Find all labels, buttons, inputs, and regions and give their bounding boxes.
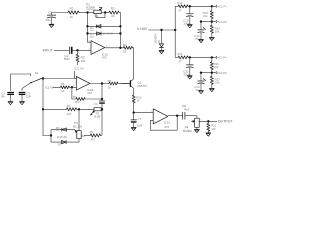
svg-text:R2: R2 bbox=[111, 7, 115, 11]
net label IC1 P6 bbox=[216, 20, 227, 24]
svg-text:5N: 5N bbox=[1, 95, 5, 99]
resistor R5 bbox=[53, 82, 70, 93]
svg-text:R5: R5 bbox=[61, 82, 65, 86]
ground under C13 bbox=[199, 91, 204, 94]
capacitor C6 bbox=[94, 101, 105, 135]
transistor Q1 bbox=[122, 79, 148, 88]
wire P3 to R9 bbox=[81, 134, 90, 137]
svg-text:R9: R9 bbox=[90, 130, 94, 134]
svg-text:10u: 10u bbox=[46, 18, 51, 22]
capacitor C7 bbox=[131, 113, 142, 128]
wire P4 to output bbox=[199, 119, 217, 123]
diode rail 1 wire bbox=[88, 25, 121, 27]
op-amp IC2A bbox=[151, 109, 171, 129]
wire C3 top feed bbox=[11, 74, 31, 91]
op-amp IC1A bbox=[73, 76, 93, 95]
ground under R14 bbox=[209, 37, 214, 40]
ground under C7 bbox=[131, 127, 136, 130]
svg-text:10k: 10k bbox=[203, 14, 208, 18]
svg-text:1k: 1k bbox=[123, 50, 127, 54]
resistor R10 vertical bbox=[132, 88, 142, 112]
svg-text:C7: C7 bbox=[137, 117, 141, 121]
svg-text:2N5457: 2N5457 bbox=[137, 84, 148, 88]
resistor R4 bbox=[123, 43, 133, 54]
svg-text:972: 972 bbox=[102, 55, 107, 59]
svg-text:1N4148: 1N4148 bbox=[103, 31, 114, 35]
svg-text:D7: D7 bbox=[58, 143, 62, 147]
wire to IC1 P+ label bbox=[188, 5, 216, 7]
node P2 right terminal bbox=[101, 108, 103, 110]
svg-text:B1M: B1M bbox=[94, 115, 101, 119]
net label IC1 P+ bbox=[216, 5, 227, 9]
wire rail IC2 P+ bbox=[175, 56, 178, 58]
stub net IC1 P6 to opamp2 bbox=[74, 71, 76, 79]
svg-text:10k: 10k bbox=[215, 29, 220, 33]
resistor R7 bbox=[43, 104, 77, 116]
wiper arrow into P3 bbox=[74, 130, 77, 133]
svg-text:50N: 50N bbox=[64, 57, 70, 61]
svg-text:D6: D6 bbox=[56, 126, 60, 130]
ground under R11 bbox=[206, 133, 211, 136]
wire output node down to C6 bbox=[101, 84, 103, 102]
wire R9 to C6 chain bbox=[100, 134, 102, 136]
diode D7 bbox=[57, 135, 68, 147]
OUTPUT net label bbox=[218, 120, 234, 124]
svg-text:4k7: 4k7 bbox=[91, 138, 96, 142]
svg-text:IC1 V6: IC1 V6 bbox=[75, 67, 84, 71]
svg-text:S1: S1 bbox=[35, 71, 39, 75]
svg-text:IC2 P+: IC2 P+ bbox=[218, 56, 227, 60]
potentiometer P1 bbox=[86, 3, 105, 18]
wire C4 to switch contact bbox=[22, 83, 31, 91]
wire R8 to Q1 base bbox=[118, 83, 131, 85]
potentiometer P4 bbox=[183, 116, 199, 133]
svg-text:1M: 1M bbox=[81, 59, 86, 63]
resistor R17 vertical bbox=[210, 73, 220, 89]
wire R6 to C6 node bbox=[85, 98, 104, 100]
svg-text:B100k: B100k bbox=[183, 129, 192, 133]
svg-text:IC2 V5: IC2 V5 bbox=[45, 85, 54, 89]
ground under C1 bbox=[49, 24, 54, 27]
svg-text:972: 972 bbox=[87, 91, 92, 95]
svg-text:P1: P1 bbox=[95, 14, 99, 18]
resistor R1 bbox=[68, 7, 79, 19]
feedback loop opamp3 bbox=[150, 116, 177, 131]
diode rail left join bbox=[50, 130, 52, 143]
svg-text:IC1 P+: IC1 P+ bbox=[218, 5, 227, 9]
svg-text:1M: 1M bbox=[211, 127, 216, 131]
node P3 top bbox=[78, 108, 80, 110]
capacitor C11 bbox=[183, 57, 193, 76]
resistor R9 bbox=[90, 130, 101, 141]
net label IC1 P6 left bbox=[75, 67, 84, 71]
svg-text:R7: R7 bbox=[67, 104, 71, 108]
potentiometer P3 bbox=[73, 121, 83, 139]
wire opamp3 out bbox=[168, 115, 183, 117]
svg-text:D1: D1 bbox=[90, 26, 94, 30]
svg-text:10k: 10k bbox=[214, 65, 219, 69]
svg-text:1k: 1k bbox=[137, 99, 141, 103]
svg-text:972: 972 bbox=[164, 125, 169, 129]
svg-text:IC1 P6: IC1 P6 bbox=[218, 20, 227, 24]
resistor R3 bbox=[76, 50, 85, 65]
ground under C3 bbox=[8, 102, 13, 105]
wire R1 to node A bbox=[79, 12, 94, 14]
svg-text:A100K: A100K bbox=[86, 6, 96, 10]
diode rail D7 bbox=[51, 139, 79, 142]
capacitor C13 bbox=[194, 73, 205, 92]
INPUT net label bbox=[43, 48, 53, 52]
diode D1 bbox=[90, 25, 101, 31]
svg-text:12k: 12k bbox=[67, 112, 72, 116]
svg-text:B1 10k: B1 10k bbox=[73, 124, 83, 128]
wire input to C2 bbox=[54, 49, 69, 51]
node A junction bbox=[86, 11, 88, 13]
ground under R17 bbox=[209, 88, 214, 91]
wire opamp1 out bbox=[105, 47, 124, 49]
junction dots diode rails right bbox=[119, 25, 121, 35]
ground under D5 bbox=[159, 50, 164, 53]
svg-text:4u7: 4u7 bbox=[184, 108, 189, 112]
net label IC2 P6 bbox=[216, 71, 227, 75]
resistor R6 bbox=[73, 95, 85, 104]
svg-text:10k: 10k bbox=[215, 81, 220, 85]
svg-text:IC2 P6: IC2 P6 bbox=[218, 71, 227, 75]
switch S1 bbox=[30, 71, 44, 83]
wire top row C1 to R1 bbox=[52, 13, 69, 16]
wire C2 to opamp bbox=[73, 49, 91, 51]
svg-text:2k: 2k bbox=[111, 14, 115, 18]
capacitor C1 bbox=[46, 11, 56, 25]
wire R5 to opamp2 minus bbox=[69, 86, 76, 88]
ground under C11 bbox=[187, 76, 192, 79]
net label IC2 P+ bbox=[216, 56, 227, 60]
svg-text:R6: R6 bbox=[73, 95, 77, 99]
svg-text:OUTPUT: OUTPUT bbox=[218, 120, 234, 124]
wire rail IC1 P+ bbox=[175, 5, 178, 7]
wire to IC2 P+ label bbox=[188, 56, 216, 58]
svg-text:D2: D2 bbox=[90, 33, 94, 37]
diode D5 vertical bbox=[153, 30, 163, 50]
svg-text:1k: 1k bbox=[70, 15, 74, 19]
node after P1 bbox=[101, 11, 109, 13]
wire P3 top bbox=[78, 109, 80, 130]
capacitor C3 bbox=[1, 91, 14, 101]
svg-text:R12: R12 bbox=[177, 1, 183, 5]
potentiometer P2 bbox=[91, 108, 102, 119]
mid rail IC2 P6 bbox=[200, 72, 216, 74]
svg-text:D5: D5 bbox=[157, 40, 161, 44]
wire R7 to P2 bbox=[77, 108, 94, 110]
svg-text:INPUT: INPUT bbox=[43, 48, 53, 52]
ground under C10 bbox=[187, 25, 192, 28]
mid rail IC1 P6 bbox=[200, 20, 216, 22]
resistor R2 bbox=[109, 7, 119, 19]
wire switch pole to opamp2 bbox=[43, 78, 76, 80]
capacitor C2 bbox=[64, 47, 72, 61]
ground under P4 bbox=[194, 127, 199, 132]
svg-text:V+10V: V+10V bbox=[137, 27, 148, 31]
V+10V net label bbox=[137, 27, 148, 31]
feedback loop opamp2 bbox=[72, 87, 76, 99]
capacitor C12 bbox=[194, 22, 205, 41]
wire R2 to right bus bbox=[119, 13, 120, 48]
bus from switch node down bbox=[42, 79, 51, 136]
resistor R12 bbox=[177, 1, 188, 12]
diode D6 bbox=[56, 126, 67, 131]
svg-text:47: 47 bbox=[178, 8, 182, 12]
capacitor C4 bbox=[19, 91, 31, 101]
svg-text:1N4148: 1N4148 bbox=[57, 135, 68, 139]
svg-text:10N: 10N bbox=[137, 124, 142, 128]
net label IC2 P5 bbox=[45, 85, 54, 89]
svg-text:C6: C6 bbox=[94, 102, 98, 106]
op-amp IC1B bbox=[88, 40, 108, 60]
diode rail D6 bbox=[51, 129, 74, 131]
ground under C4 bbox=[20, 102, 25, 105]
resistor R16 vertical bbox=[210, 57, 219, 72]
capacitor C10 bbox=[183, 6, 193, 25]
resistor R8 bbox=[108, 79, 118, 89]
svg-text:R4: R4 bbox=[123, 43, 127, 47]
svg-text:R15: R15 bbox=[177, 52, 183, 56]
diode rail 2 wire bbox=[88, 33, 121, 35]
svg-text:3k3: 3k3 bbox=[75, 100, 80, 104]
resistor R15 bbox=[177, 52, 188, 63]
ground under C12 bbox=[199, 39, 204, 42]
resistor R14 vertical bbox=[210, 22, 220, 38]
svg-text:22N: 22N bbox=[26, 95, 31, 99]
capacitor C8 bbox=[182, 104, 197, 119]
resistor R11 vertical bbox=[207, 121, 217, 133]
node opamp3 input bbox=[133, 111, 154, 113]
wire opamp2 out bbox=[90, 82, 109, 84]
wire R4 to Q1 collector bbox=[132, 48, 134, 79]
svg-text:47: 47 bbox=[178, 59, 182, 63]
resistor R13 vertical bbox=[203, 6, 214, 21]
diode D2 bbox=[90, 31, 113, 37]
left feedback bus bbox=[88, 13, 92, 43]
power bus vertical bbox=[174, 6, 176, 57]
svg-text:C1: C1 bbox=[48, 11, 52, 15]
svg-text:1k: 1k bbox=[108, 85, 112, 89]
junction dots diode rails left bbox=[86, 25, 88, 35]
svg-text:R1: R1 bbox=[70, 7, 74, 11]
svg-text:1k: 1k bbox=[61, 89, 65, 93]
wire V rail bbox=[148, 29, 176, 31]
svg-text:R8: R8 bbox=[108, 79, 112, 83]
